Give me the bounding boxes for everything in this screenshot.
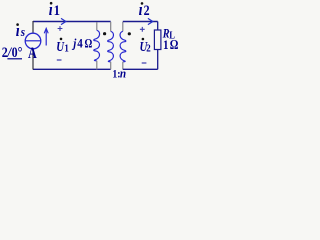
wire: right loop bottom bbox=[123, 68, 158, 70]
current source Is circle bbox=[25, 33, 41, 49]
wire: source top lead bbox=[32, 21, 34, 33]
svg-text:A: A bbox=[28, 46, 37, 63]
svg-text:1: 1 bbox=[64, 43, 69, 55]
voltage U1 minus bbox=[57, 59, 62, 61]
label Is dot bbox=[16, 23, 19, 26]
voltage U2 plus bbox=[140, 27, 145, 32]
svg-text:0°: 0° bbox=[12, 44, 23, 61]
transformer secondary coil bbox=[120, 31, 126, 62]
wire: resistor bottom lead bbox=[157, 50, 159, 70]
svg-text:1: 1 bbox=[163, 37, 169, 52]
transformer primary polarity dot bbox=[103, 32, 106, 35]
transformer secondary bottom stub bbox=[122, 62, 124, 70]
svg-text:ı: ı bbox=[16, 22, 20, 40]
svg-text:4: 4 bbox=[77, 36, 83, 51]
current source bar bbox=[25, 40, 41, 42]
transformer primary coil bbox=[108, 31, 114, 62]
label I2 dot bbox=[141, 2, 144, 5]
wire: resistor top lead bbox=[157, 22, 159, 31]
voltage U2 minus bbox=[142, 62, 147, 64]
transformer secondary polarity dot bbox=[128, 32, 131, 35]
voltage U1 plus bbox=[58, 26, 63, 31]
voltage U1 dot bbox=[60, 38, 63, 41]
svg-text:Ω: Ω bbox=[85, 37, 93, 51]
svg-text:n: n bbox=[120, 66, 127, 81]
svg-text:s: s bbox=[20, 24, 25, 39]
svg-text:ı: ı bbox=[139, 1, 143, 19]
svg-text:Ω: Ω bbox=[170, 37, 179, 52]
wire: left loop top bbox=[33, 21, 111, 23]
voltage U2 dot bbox=[142, 38, 145, 41]
inductor j4 top stub bbox=[96, 22, 98, 30]
transformer secondary top stub bbox=[122, 22, 124, 32]
svg-text:2: 2 bbox=[146, 43, 151, 55]
background bbox=[0, 0, 187, 85]
current source direction arrow bbox=[45, 30, 47, 46]
wire: right loop top bbox=[123, 21, 158, 23]
transformer primary bottom stub bbox=[110, 62, 112, 70]
svg-text:1: 1 bbox=[54, 3, 60, 19]
resistor RL box bbox=[154, 30, 161, 50]
wire: source bottom lead bbox=[32, 49, 34, 70]
svg-text:ı: ı bbox=[49, 1, 53, 19]
inductor j4 bottom stub bbox=[96, 61, 98, 70]
inductor j4 coil bbox=[94, 30, 100, 61]
current arrow I1 on top wire bbox=[61, 18, 66, 24]
wire: left loop bottom bbox=[33, 68, 111, 70]
svg-text:2: 2 bbox=[144, 2, 150, 19]
transformer primary top stub bbox=[110, 22, 112, 32]
label I1 dot bbox=[50, 2, 53, 5]
current arrow I2 on top wire bbox=[148, 18, 153, 24]
